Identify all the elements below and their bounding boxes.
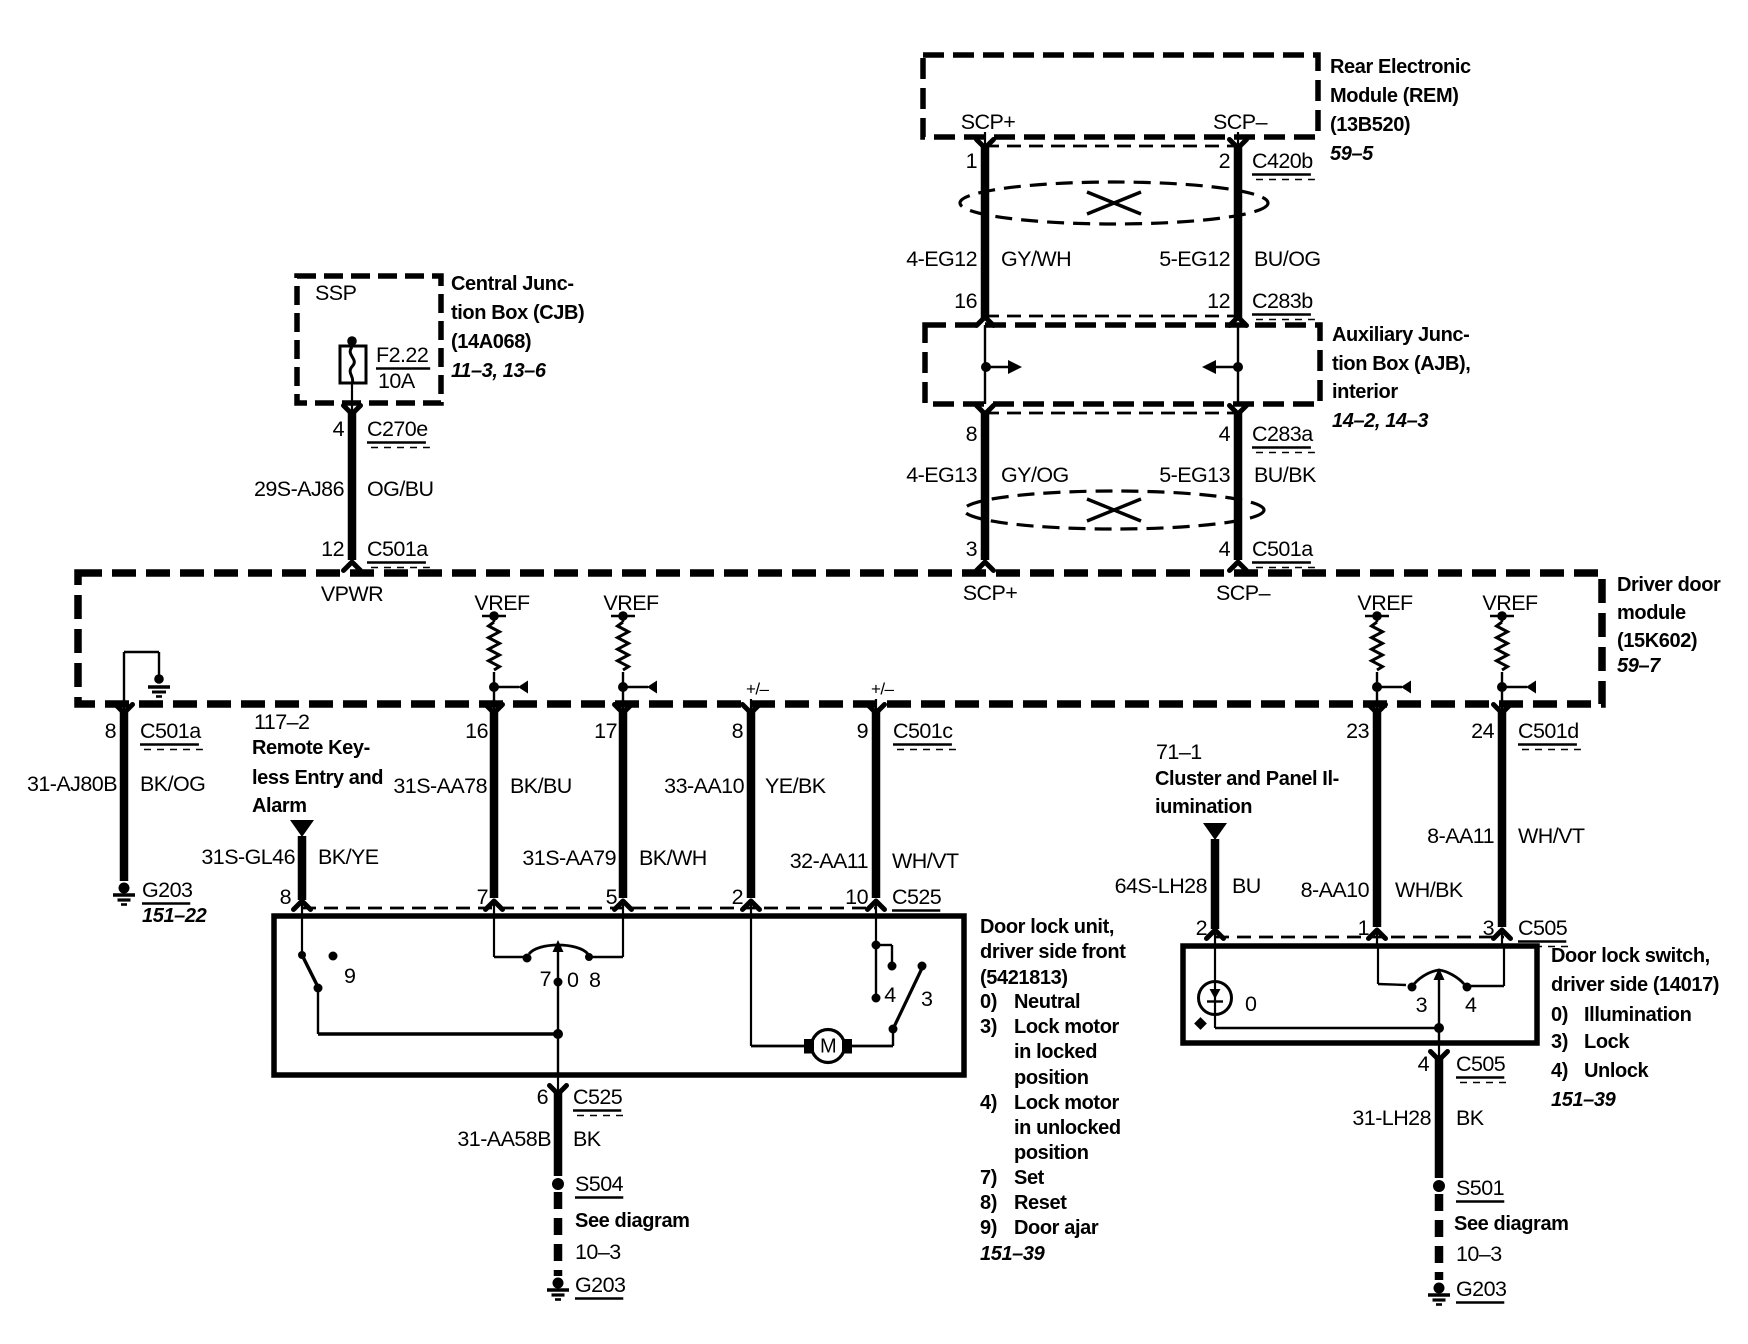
svg-text:8: 8 (589, 968, 601, 992)
svg-text:9): 9) (980, 1217, 997, 1239)
svg-text:BU/BK: BU/BK (1254, 463, 1317, 487)
svg-text:31-AA58B: 31-AA58B (457, 1127, 551, 1151)
svg-text:7: 7 (540, 967, 551, 991)
svg-text:interior: interior (1332, 381, 1398, 403)
svg-text:C420b: C420b (1252, 149, 1313, 173)
svg-text:S501: S501 (1456, 1176, 1504, 1200)
svg-text:31S-AA79: 31S-AA79 (522, 846, 616, 870)
svg-text:3: 3 (966, 537, 978, 561)
svg-text:Lock: Lock (1584, 1031, 1630, 1053)
svg-text:Neutral: Neutral (1014, 991, 1080, 1013)
svg-text:Door lock unit,: Door lock unit, (980, 916, 1114, 938)
svg-text:8: 8 (732, 719, 744, 743)
svg-text:Driver door: Driver door (1617, 574, 1721, 596)
svg-text:C525: C525 (573, 1085, 623, 1109)
svg-text:31-AJ80B: 31-AJ80B (27, 772, 117, 796)
svg-text:12: 12 (321, 537, 344, 561)
svg-text:C505: C505 (1518, 916, 1568, 940)
svg-text:C505: C505 (1456, 1052, 1506, 1076)
svg-text:BK/BU: BK/BU (510, 774, 572, 798)
svg-text:8: 8 (105, 719, 117, 743)
svg-text:M: M (820, 1036, 836, 1058)
svg-text:BU/OG: BU/OG (1254, 247, 1321, 271)
svg-text:SCP+: SCP+ (963, 581, 1018, 605)
svg-text:3): 3) (1551, 1031, 1568, 1053)
svg-text:driver side (14017): driver side (14017) (1551, 974, 1719, 996)
svg-text:driver side front: driver side front (980, 941, 1126, 963)
svg-text:Module (REM): Module (REM) (1330, 85, 1459, 107)
svg-text:1: 1 (966, 149, 977, 173)
svg-text:WH/VT: WH/VT (1518, 824, 1585, 848)
svg-text:4: 4 (1219, 422, 1231, 446)
svg-text:BK: BK (573, 1127, 602, 1151)
svg-text:less Entry and: less Entry and (252, 767, 383, 789)
svg-text:C501a: C501a (1252, 537, 1313, 561)
svg-text:SCP+: SCP+ (961, 110, 1016, 134)
svg-text:4: 4 (1418, 1052, 1430, 1076)
svg-text:Cluster and Panel Il-: Cluster and Panel Il- (1155, 768, 1339, 790)
svg-text:BK/WH: BK/WH (639, 846, 707, 870)
svg-text:3): 3) (980, 1016, 997, 1038)
svg-text:4: 4 (1219, 537, 1231, 561)
svg-text:11–3, 13–6: 11–3, 13–6 (451, 360, 547, 382)
svg-text:10–3: 10–3 (1456, 1242, 1502, 1266)
svg-text:0: 0 (1245, 992, 1257, 1016)
svg-text:16: 16 (954, 289, 977, 313)
svg-text:16: 16 (465, 719, 488, 743)
svg-text:8-AA11: 8-AA11 (1427, 824, 1494, 848)
svg-text:64S-LH28: 64S-LH28 (1115, 874, 1208, 898)
svg-text:33-AA10: 33-AA10 (664, 774, 744, 798)
svg-text:8-AA10: 8-AA10 (1301, 878, 1370, 902)
svg-text:4: 4 (1465, 993, 1477, 1017)
svg-text:5: 5 (606, 885, 618, 909)
svg-text:8: 8 (966, 422, 978, 446)
svg-text:Lock motor: Lock motor (1014, 1016, 1120, 1038)
svg-text:C283a: C283a (1252, 422, 1313, 446)
svg-text:WH/VT: WH/VT (892, 849, 959, 873)
svg-text:(15K602): (15K602) (1617, 630, 1697, 652)
svg-text:5-EG12: 5-EG12 (1159, 247, 1230, 271)
svg-text:10A: 10A (378, 369, 416, 393)
svg-text:7): 7) (980, 1167, 997, 1189)
svg-text:Illumination: Illumination (1584, 1004, 1691, 1026)
svg-text:4: 4 (884, 983, 896, 1007)
svg-text:(13B520): (13B520) (1330, 114, 1410, 136)
svg-text:2: 2 (1219, 149, 1230, 173)
svg-text:14–2, 14–3: 14–2, 14–3 (1332, 410, 1428, 432)
svg-text:3: 3 (921, 987, 933, 1011)
svg-text:GY/WH: GY/WH (1001, 247, 1071, 271)
svg-text:C525: C525 (892, 885, 942, 909)
svg-text:23: 23 (1346, 719, 1369, 743)
svg-text:Door lock switch,: Door lock switch, (1551, 945, 1710, 967)
svg-text:4): 4) (980, 1092, 997, 1114)
svg-text:+/–: +/– (746, 680, 770, 699)
svg-text:12: 12 (1207, 289, 1230, 313)
svg-text:S504: S504 (575, 1172, 624, 1196)
svg-text:8): 8) (980, 1192, 997, 1214)
svg-text:F2.22: F2.22 (376, 343, 428, 367)
svg-text:59–5: 59–5 (1330, 143, 1374, 165)
svg-text:Set: Set (1014, 1167, 1045, 1189)
svg-text:6: 6 (537, 1085, 549, 1109)
svg-text:WH/BK: WH/BK (1395, 878, 1464, 902)
svg-text:9: 9 (857, 719, 868, 743)
svg-text:29S-AJ86: 29S-AJ86 (254, 477, 345, 501)
svg-text:0: 0 (567, 968, 579, 992)
svg-text:31S-AA78: 31S-AA78 (393, 774, 487, 798)
svg-text:G203: G203 (142, 878, 193, 902)
svg-text:4): 4) (1551, 1060, 1568, 1082)
svg-text:Central Junc-: Central Junc- (451, 273, 574, 295)
svg-text:2: 2 (1196, 916, 1207, 940)
svg-text:BK: BK (1456, 1106, 1485, 1130)
svg-text:71–1: 71–1 (1156, 740, 1202, 764)
svg-text:See diagram: See diagram (575, 1210, 690, 1232)
svg-text:position: position (1014, 1067, 1089, 1089)
svg-text:in locked: in locked (1014, 1041, 1097, 1063)
svg-text:Door ajar: Door ajar (1014, 1217, 1099, 1239)
svg-text:(14A068): (14A068) (451, 331, 531, 353)
svg-text:C501d: C501d (1518, 719, 1579, 743)
svg-text:BK/YE: BK/YE (318, 845, 379, 869)
svg-text:Reset: Reset (1014, 1192, 1067, 1214)
svg-text:+/–: +/– (871, 680, 895, 699)
svg-text:(5421813): (5421813) (980, 967, 1068, 989)
svg-text:24: 24 (1471, 719, 1494, 743)
svg-text:BK/OG: BK/OG (140, 772, 205, 796)
svg-text:4-EG12: 4-EG12 (906, 247, 977, 271)
svg-text:Auxiliary Junc-: Auxiliary Junc- (1332, 324, 1469, 346)
svg-text:59–7: 59–7 (1617, 655, 1661, 677)
svg-text:VREF: VREF (1357, 591, 1413, 615)
svg-text:YE/BK: YE/BK (765, 774, 827, 798)
svg-text:SCP–: SCP– (1216, 581, 1271, 605)
svg-text:BU: BU (1232, 874, 1261, 898)
svg-text:7: 7 (477, 885, 488, 909)
svg-text:4-EG13: 4-EG13 (906, 463, 977, 487)
svg-text:position: position (1014, 1142, 1089, 1164)
svg-text:17: 17 (594, 719, 617, 743)
svg-text:iumination: iumination (1155, 796, 1252, 818)
svg-text:151–22: 151–22 (142, 905, 207, 927)
svg-text:C501a: C501a (140, 719, 201, 743)
svg-text:10–3: 10–3 (575, 1240, 621, 1264)
svg-text:8: 8 (280, 885, 292, 909)
svg-text:Lock motor: Lock motor (1014, 1092, 1120, 1114)
svg-text:in unlocked: in unlocked (1014, 1117, 1121, 1139)
svg-text:SCP–: SCP– (1213, 110, 1268, 134)
svg-text:G203: G203 (1456, 1277, 1507, 1301)
svg-text:10: 10 (845, 885, 868, 909)
svg-text:31S-GL46: 31S-GL46 (201, 845, 295, 869)
svg-text:VREF: VREF (603, 591, 659, 615)
svg-text:Unlock: Unlock (1584, 1060, 1650, 1082)
svg-text:G203: G203 (575, 1273, 626, 1297)
svg-text:151–39: 151–39 (1551, 1089, 1617, 1111)
svg-text:5-EG13: 5-EG13 (1159, 463, 1230, 487)
svg-text:VREF: VREF (474, 591, 530, 615)
svg-text:Alarm: Alarm (252, 795, 307, 817)
svg-text:OG/BU: OG/BU (367, 477, 434, 501)
svg-text:VREF: VREF (1482, 591, 1538, 615)
svg-text:Rear Electronic: Rear Electronic (1330, 56, 1471, 78)
svg-text:32-AA11: 32-AA11 (790, 849, 868, 873)
svg-text:SSP: SSP (315, 281, 357, 305)
svg-text:VPWR: VPWR (321, 582, 383, 606)
svg-text:31-LH28: 31-LH28 (1352, 1106, 1431, 1130)
svg-text:2: 2 (732, 885, 743, 909)
svg-text:See diagram: See diagram (1454, 1213, 1569, 1235)
svg-text:C270e: C270e (367, 417, 428, 441)
svg-text:GY/OG: GY/OG (1001, 463, 1069, 487)
svg-text:tion Box (CJB): tion Box (CJB) (451, 302, 584, 324)
svg-text:module: module (1617, 602, 1686, 624)
svg-text:C501c: C501c (893, 719, 953, 743)
svg-text:C501a: C501a (367, 537, 428, 561)
svg-text:tion Box (AJB),: tion Box (AJB), (1332, 353, 1470, 375)
svg-text:0): 0) (980, 991, 997, 1013)
svg-text:0): 0) (1551, 1004, 1568, 1026)
svg-text:9: 9 (344, 964, 355, 988)
svg-text:4: 4 (333, 417, 345, 441)
svg-text:C283b: C283b (1252, 289, 1313, 313)
svg-text:3: 3 (1416, 993, 1428, 1017)
svg-text:117–2: 117–2 (254, 710, 309, 734)
svg-text:Remote Key-: Remote Key- (252, 737, 370, 759)
svg-text:151–39: 151–39 (980, 1243, 1046, 1265)
